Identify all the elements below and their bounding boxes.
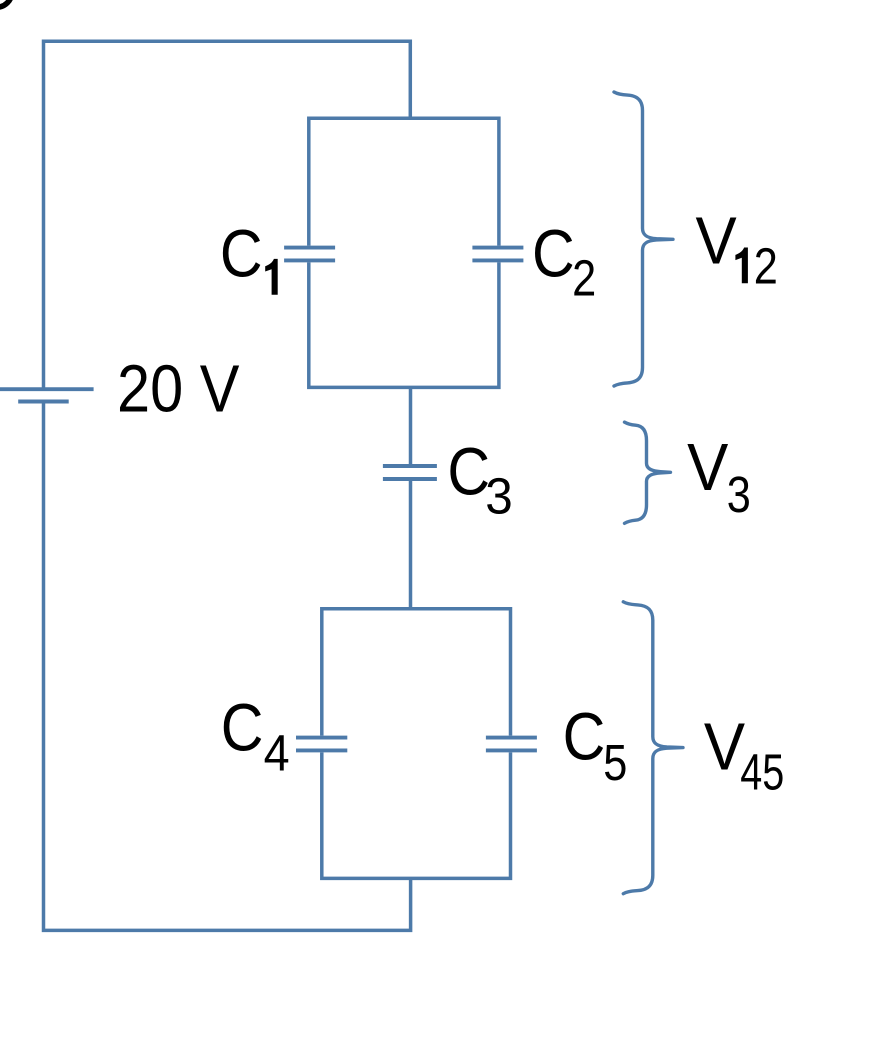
svg-text:3: 3 (727, 466, 751, 523)
svg-text:4: 4 (264, 724, 290, 781)
svg-text:5: 5 (603, 734, 627, 791)
svg-text:45: 45 (740, 744, 784, 801)
svg-text:3: 3 (485, 468, 513, 525)
svg-text:20 V: 20 V (117, 353, 240, 427)
svg-text:C: C (220, 218, 263, 292)
svg-text:2: 2 (754, 237, 778, 294)
svg-text:C: C (447, 436, 490, 510)
svg-text:V: V (687, 431, 729, 505)
svg-text:C: C (563, 700, 606, 774)
svg-text:C: C (221, 691, 264, 765)
svg-text:V: V (696, 205, 738, 279)
svg-text:2: 2 (572, 249, 596, 306)
svg-text:C: C (532, 218, 575, 292)
